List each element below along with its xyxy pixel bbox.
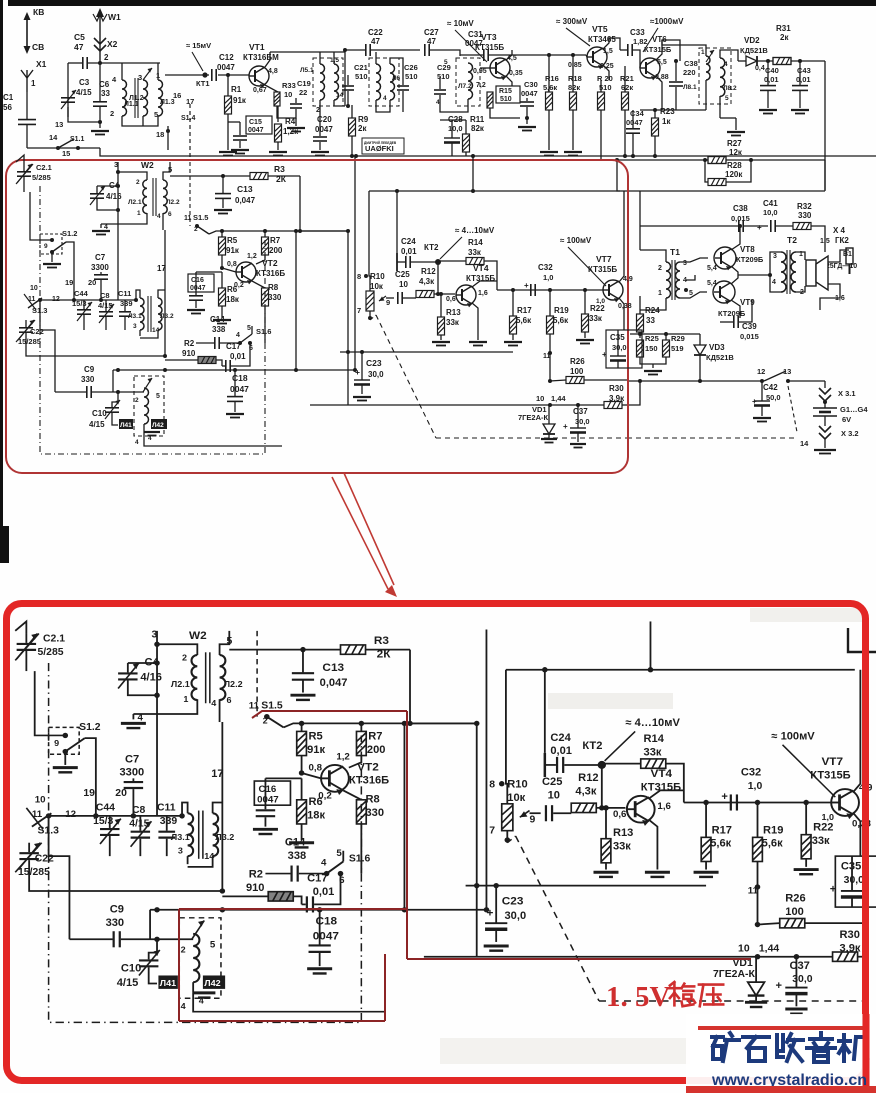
wire supply bus right: [627, 380, 762, 382]
IF transformer L6 dashed can: [369, 58, 399, 106]
inductor L7.2: [468, 63, 473, 99]
red trace segment C: [407, 958, 751, 960]
svg-text:R10: R10: [370, 272, 385, 281]
wire top bus in box: [369, 190, 620, 192]
wire: [639, 57, 641, 68]
logo box UA0FKI: [362, 138, 404, 154]
wire collector: [506, 50, 512, 60]
svg-text:C13: C13: [237, 184, 253, 194]
svg-text:82к: 82к: [568, 83, 580, 92]
inductor L3.1: [140, 298, 144, 330]
svg-text:Л5.1: Л5.1: [300, 67, 314, 74]
svg-text:338: 338: [212, 325, 226, 334]
wire: [720, 117, 736, 119]
wire: [460, 54, 483, 56]
svg-text:C7: C7: [95, 253, 106, 262]
svg-text:КТ316БМ: КТ316БМ: [243, 53, 279, 62]
ground: [295, 118, 297, 126]
ground: [100, 224, 102, 228]
wire: [319, 118, 321, 136]
inductor L5.1: [320, 64, 325, 100]
wire: [403, 297, 416, 299]
wire: [440, 95, 468, 112]
wire: [347, 352, 349, 405]
wire: [222, 268, 236, 272]
wire: [744, 225, 768, 227]
svg-text:R24: R24: [645, 306, 660, 315]
red trace segment G: [384, 954, 386, 1021]
svg-text:R 20: R 20: [597, 74, 613, 83]
svg-text:1: 1: [31, 79, 36, 88]
svg-text:КТ209Б: КТ209Б: [736, 255, 764, 264]
wire: [438, 260, 466, 262]
wire emitter: [506, 76, 512, 90]
svg-text:18: 18: [156, 130, 164, 139]
wire: [512, 290, 514, 316]
wire: [526, 107, 528, 118]
svg-text:C37: C37: [573, 407, 588, 416]
wire: [620, 49, 627, 51]
svg-text:+: +: [355, 367, 360, 377]
svg-text:220: 220: [683, 68, 696, 77]
svg-text:R5: R5: [227, 236, 238, 245]
capacitor C15 0047 boxed: [246, 116, 272, 134]
svg-text:33к: 33к: [589, 314, 603, 323]
svg-text:14: 14: [49, 133, 58, 142]
svg-text:0047: 0047: [230, 384, 249, 394]
ground: [226, 414, 244, 418]
svg-text:910: 910: [182, 349, 196, 358]
svg-text:0,047: 0,047: [235, 196, 256, 205]
svg-text:5: 5: [444, 59, 448, 66]
wire: [654, 110, 656, 118]
inductor L4.2 label: [119, 419, 133, 429]
svg-text:X 4: X 4: [833, 226, 846, 235]
wire collector: [656, 40, 680, 61]
watermark hanzi shou: [777, 1034, 803, 1061]
ground: [432, 342, 450, 346]
svg-text:12: 12: [52, 296, 60, 303]
magnified frame corner bracket: [848, 628, 876, 652]
svg-text:4: 4: [157, 213, 161, 220]
svg-text:W2: W2: [141, 160, 154, 170]
svg-text:VT8: VT8: [740, 245, 755, 254]
ground: [791, 110, 809, 114]
svg-text:R26: R26: [570, 357, 585, 366]
svg-text:11: 11: [28, 296, 36, 303]
wire: [51, 252, 53, 262]
svg-text:33: 33: [646, 316, 655, 325]
svg-text:R21: R21: [620, 74, 634, 83]
wire: [101, 213, 147, 224]
ground: [504, 342, 522, 346]
wire: [731, 266, 738, 284]
wire collector: [265, 52, 270, 67]
wire: [55, 355, 165, 357]
svg-text:VT5: VT5: [592, 24, 608, 34]
svg-text:КД521В: КД521В: [706, 353, 734, 362]
svg-text:20: 20: [88, 278, 96, 287]
ground: [353, 397, 371, 401]
transistor VT9 KT209B: [713, 281, 735, 303]
wire: [630, 333, 700, 335]
svg-text:0,01: 0,01: [796, 75, 811, 84]
svg-text:C5: C5: [74, 32, 85, 42]
capacitor C16 0047 boxed: [188, 274, 214, 292]
svg-text:R14: R14: [468, 238, 483, 247]
wire: [221, 272, 223, 288]
wire: [796, 286, 805, 292]
svg-text:C9: C9: [84, 365, 95, 374]
watermark red line top: [698, 1026, 864, 1030]
svg-text:4,9: 4,9: [623, 276, 633, 283]
svg-text:6: 6: [168, 211, 172, 218]
wire: [828, 250, 849, 262]
wire: [268, 175, 300, 177]
svg-text:8: 8: [357, 272, 361, 281]
wire: [319, 100, 321, 118]
wire: [484, 261, 497, 290]
svg-text:7,2: 7,2: [476, 82, 486, 89]
wire: [124, 317, 126, 330]
antenna X1: [21, 70, 33, 92]
svg-text:R9: R9: [358, 115, 369, 124]
wire: [699, 355, 701, 381]
svg-text:R25: R25: [645, 334, 659, 343]
svg-text:0,01: 0,01: [401, 247, 417, 256]
svg-text:15/285: 15/285: [18, 337, 41, 346]
switch S1.4 dashed: [189, 104, 191, 160]
wire: [25, 320, 27, 327]
svg-text:3: 3: [683, 260, 687, 267]
ground: [269, 152, 287, 156]
svg-text:510: 510: [437, 72, 450, 81]
svg-text:3: 3: [138, 73, 142, 82]
red border right segment over watermark: [863, 1014, 870, 1093]
oscillator coil can L4 dashed: [134, 376, 164, 436]
wire: [767, 61, 769, 85]
svg-text:C38: C38: [733, 204, 748, 213]
label hanzi wen: [669, 982, 695, 1006]
wire: [586, 55, 587, 57]
wire: [396, 191, 398, 253]
dashed enclosure diagonal: [376, 315, 436, 438]
svg-text:3: 3: [773, 253, 777, 260]
wire: [105, 317, 107, 330]
wire: [221, 306, 223, 318]
svg-text:4: 4: [772, 279, 776, 286]
wire: [600, 110, 602, 156]
wire emitter: [252, 281, 265, 288]
wire emitter: [656, 76, 662, 110]
svg-text:1: 1: [137, 210, 141, 217]
wire: [112, 370, 114, 392]
ground: [99, 122, 101, 128]
svg-text:519: 519: [671, 344, 684, 353]
svg-text:120к: 120к: [725, 170, 743, 179]
capacitor C35 30.0 boxed: [606, 330, 642, 368]
svg-text:12к: 12к: [729, 148, 743, 157]
svg-text:R13: R13: [446, 308, 461, 317]
wire: [705, 160, 708, 182]
svg-text:100: 100: [570, 367, 584, 376]
wire: [386, 297, 394, 299]
red trace segment B: [406, 711, 408, 959]
svg-text:R23: R23: [660, 107, 675, 116]
svg-text:1,2: 1,2: [247, 253, 257, 260]
svg-text:C25: C25: [395, 270, 410, 279]
svg-text:C15: C15: [249, 119, 262, 126]
svg-text:C14: C14: [210, 315, 225, 324]
wire: [548, 110, 550, 150]
watermark hanzi yin: [807, 1033, 835, 1062]
red trace segment A: [252, 711, 407, 718]
wire vertical from R20: [600, 156, 602, 160]
wire: [144, 431, 152, 433]
ground: [469, 342, 487, 346]
wire: [121, 63, 123, 80]
watermark background: [686, 1014, 876, 1093]
svg-text:510: 510: [500, 96, 512, 103]
wire: [738, 60, 746, 62]
wire: [165, 74, 209, 76]
wire: [680, 258, 708, 262]
svg-text:R16: R16: [545, 74, 559, 83]
svg-text:2: 2: [194, 226, 198, 233]
ground: [144, 432, 160, 436]
wire: [277, 142, 279, 150]
oscillator dashed enclosure: [40, 186, 265, 454]
svg-text:339: 339: [120, 299, 133, 308]
wire: [112, 413, 118, 425]
svg-text:1. 5V: 1. 5V: [606, 981, 671, 1013]
wire: [411, 261, 438, 263]
svg-text:33к: 33к: [446, 318, 460, 327]
wire: [549, 290, 551, 316]
svg-text:T1: T1: [670, 247, 680, 257]
wire: [434, 293, 438, 295]
svg-text:30,0: 30,0: [368, 370, 384, 379]
svg-text:VT3: VT3: [481, 32, 497, 42]
svg-text:S1.2: S1.2: [62, 229, 77, 238]
wire: [720, 50, 738, 61]
svg-text:C12: C12: [219, 53, 234, 62]
wire: [68, 107, 100, 122]
svg-text:1: 1: [658, 290, 662, 297]
inductor L2.1: [143, 180, 147, 214]
wire tuning bus: [40, 299, 136, 301]
svg-text:C44: C44: [74, 289, 89, 298]
svg-text:C40: C40: [765, 66, 779, 75]
svg-text:R8: R8: [268, 283, 279, 292]
svg-text:1,5: 1,5: [603, 48, 613, 55]
wire: [624, 110, 626, 156]
wire: [820, 284, 840, 310]
wire audio feed: [639, 191, 641, 250]
wire: [440, 119, 466, 121]
svg-text:1,44: 1,44: [551, 394, 566, 403]
svg-text:0,01: 0,01: [764, 75, 779, 84]
svg-text:0,35: 0,35: [509, 70, 523, 77]
resistor R15 510 boxed: [496, 86, 520, 103]
wire: [439, 77, 441, 84]
svg-text:КТ316Б: КТ316Б: [256, 269, 285, 278]
svg-text:62к: 62к: [621, 83, 633, 92]
svg-text:С19: С19: [297, 79, 311, 88]
svg-text:R12: R12: [421, 267, 436, 276]
svg-text:15: 15: [62, 149, 70, 158]
dashed can L8: [699, 48, 731, 104]
wire: [397, 261, 405, 263]
wire: [295, 231, 297, 370]
wire: [144, 432, 282, 446]
wire: [157, 63, 159, 80]
wire: [142, 116, 144, 126]
wire: [632, 134, 634, 156]
wire: [584, 290, 586, 314]
wire: [118, 172, 147, 180]
svg-text:30,0: 30,0: [612, 343, 627, 352]
dashed stub: [370, 315, 376, 320]
wire: [624, 66, 626, 92]
wire: [170, 175, 250, 177]
wire: [512, 334, 514, 340]
ground: [540, 152, 558, 156]
wire: [67, 63, 69, 117]
svg-text:C34: C34: [630, 109, 645, 118]
wire: [633, 50, 640, 57]
ground: [187, 310, 205, 314]
svg-text:47: 47: [371, 37, 380, 46]
svg-text:200: 200: [269, 246, 283, 255]
wire: [100, 280, 102, 300]
svg-text:0,38: 0,38: [618, 303, 632, 310]
svg-text:R31: R31: [776, 24, 791, 33]
svg-text:5,6к: 5,6к: [553, 316, 569, 325]
connector X3.1: [819, 388, 831, 401]
wire: [439, 84, 441, 89]
wire output bus: [310, 404, 604, 406]
svg-text:7ГЕ2А-К: 7ГЕ2А-К: [518, 413, 549, 422]
svg-text:6V: 6V: [842, 415, 851, 424]
svg-text:C20: C20: [317, 115, 332, 124]
antenna stub: [16, 155, 24, 164]
svg-text:33к: 33к: [468, 248, 482, 257]
svg-text:19: 19: [65, 278, 73, 287]
wire collector: [603, 38, 620, 50]
inductor L1.1: [122, 80, 127, 116]
wire: [97, 185, 118, 187]
svg-text:5,5: 5,5: [657, 59, 667, 66]
svg-text:≈ 4…10мV: ≈ 4…10мV: [455, 226, 495, 235]
wire: [83, 300, 85, 309]
wire: [26, 125, 28, 148]
wire: [375, 52, 377, 64]
svg-text:56: 56: [3, 103, 12, 112]
wire: [227, 75, 229, 96]
wire: [100, 148, 876, 156]
wire: [264, 306, 266, 343]
svg-text:X 3.1: X 3.1: [838, 389, 856, 398]
wire: [451, 128, 453, 138]
red trace segment D: [179, 908, 407, 910]
red border of magnified section: [7, 604, 866, 1081]
ground: [570, 444, 586, 448]
wire: [824, 438, 826, 448]
wire: [371, 49, 420, 51]
wire: [451, 143, 453, 156]
svg-text:0,01: 0,01: [230, 352, 246, 361]
trimmer arrow: [706, 50, 714, 62]
wire: [627, 381, 640, 405]
svg-text:1к: 1к: [662, 117, 671, 126]
wire: [662, 40, 706, 56]
svg-text:S1.6: S1.6: [256, 327, 271, 336]
watermark red underline: [686, 1086, 876, 1093]
svg-text:3300: 3300: [91, 263, 109, 272]
svg-text:R11: R11: [470, 115, 485, 124]
svg-text:1,2к: 1,2к: [283, 127, 299, 136]
core: [147, 296, 149, 332]
wire: [799, 61, 801, 85]
scan artifact left bar: [0, 0, 3, 546]
svg-text:10: 10: [536, 394, 544, 403]
svg-text:R2: R2: [184, 339, 195, 348]
wire: [228, 121, 240, 123]
wire: [319, 142, 321, 150]
wire: [92, 391, 118, 393]
svg-text:C30: C30: [524, 80, 538, 89]
wire: [811, 226, 825, 252]
svg-text:КД521В: КД521В: [740, 46, 768, 55]
svg-text:R32: R32: [797, 202, 812, 211]
wire: [351, 136, 353, 156]
wire: [239, 122, 241, 135]
svg-text:R30: R30: [609, 384, 624, 393]
svg-text:C39: C39: [742, 322, 757, 331]
wire: [639, 332, 641, 338]
svg-text:5: 5: [247, 325, 251, 332]
wire: [26, 92, 28, 119]
wire: [88, 62, 118, 64]
svg-text:510: 510: [405, 72, 418, 81]
svg-text:C8: C8: [100, 291, 110, 300]
svg-text:КТ209Б: КТ209Б: [718, 309, 746, 318]
wire: [584, 379, 627, 381]
wire: [640, 250, 666, 262]
wire: [99, 107, 101, 122]
svg-text:≈ 15мV: ≈ 15мV: [186, 41, 211, 50]
svg-text:5,4: 5,4: [707, 265, 717, 272]
wire: [167, 126, 169, 150]
svg-text:C26: C26: [404, 63, 418, 72]
svg-text:0,8: 0,8: [227, 261, 237, 268]
svg-text:X 3.2: X 3.2: [841, 429, 859, 438]
ground: [43, 264, 61, 268]
wire: [369, 311, 371, 320]
svg-text:22: 22: [299, 88, 307, 97]
svg-text:9: 9: [386, 298, 390, 307]
wire: [430, 50, 460, 56]
svg-text:10,0: 10,0: [448, 124, 463, 133]
svg-text:330: 330: [81, 375, 95, 384]
capacitor C29: [434, 90, 446, 94]
wire: [96, 186, 98, 193]
svg-text:1,0: 1,0: [543, 273, 553, 282]
svg-text:S1.5: S1.5: [193, 213, 208, 222]
wire emitter: [619, 298, 624, 330]
dashed enclosure right: [788, 386, 797, 432]
